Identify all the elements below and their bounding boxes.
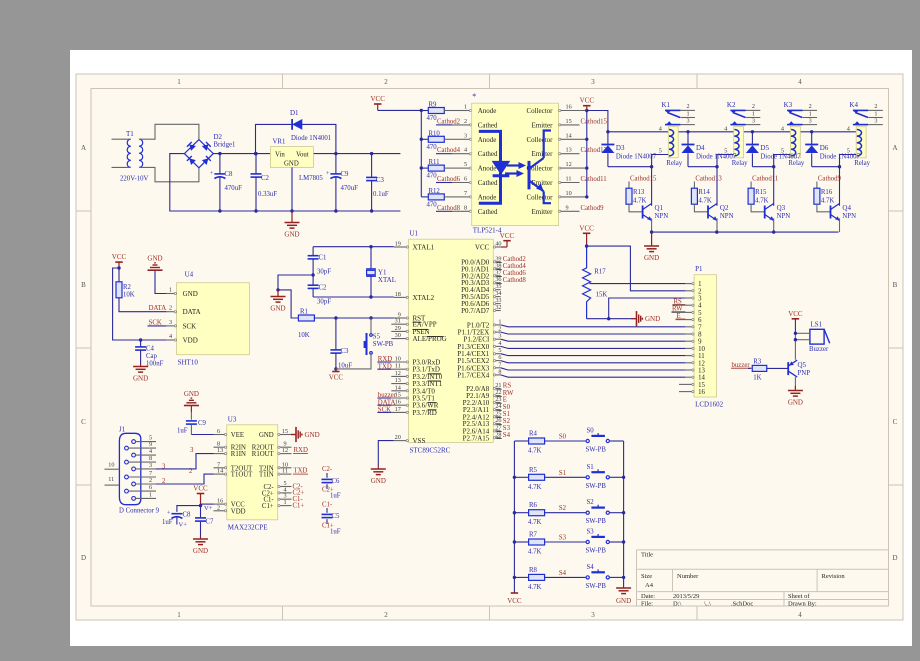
bridge rectifier D2: [184, 133, 235, 168]
transistor Q4 NPN: [831, 167, 857, 232]
svg-text:SW-PB: SW-PB: [373, 341, 394, 348]
U1 pin 30 ALE/PROG: [391, 332, 446, 343]
wire crystal node B: [313, 295, 394, 298]
U3 pin 14 T1OUT: [214, 468, 254, 479]
svg-text:30pF: 30pF: [317, 269, 331, 276]
resistor R6 4.7K: [514, 502, 585, 526]
svg-text:R17: R17: [594, 269, 606, 276]
svg-text:K1: K1: [662, 101, 671, 109]
svg-text:S1: S1: [587, 464, 594, 471]
svg-text:GND: GND: [193, 547, 208, 555]
svg-text:S4: S4: [503, 432, 511, 439]
svg-text:GND: GND: [645, 315, 660, 323]
net label C1-: [293, 496, 304, 503]
net label SCK: [148, 319, 167, 326]
svg-text:470: 470: [427, 201, 438, 208]
U1 pin 40 VCC: [475, 232, 515, 252]
resistor R4 4.7K: [514, 431, 585, 455]
svg-text:Q2: Q2: [720, 204, 729, 212]
svg-text:2: 2: [189, 468, 193, 475]
U1 pin 18 XTAL2: [394, 291, 435, 302]
wire U1 VSS to ground: [378, 441, 394, 465]
svg-text:C9: C9: [341, 171, 350, 178]
svg-text:4: 4: [698, 303, 702, 310]
capacitor C7 1uF: [195, 506, 214, 537]
svg-text:2: 2: [752, 103, 755, 110]
svg-text:File:: File:: [641, 600, 653, 607]
svg-text:VCC: VCC: [507, 597, 522, 605]
svg-text:buzzer: buzzer: [732, 362, 751, 369]
svg-text:7: 7: [498, 361, 501, 368]
svg-text:2013/5/29: 2013/5/29: [673, 593, 699, 600]
opto pin 10: [559, 190, 587, 198]
U3 pin 4 C2+: [262, 486, 292, 497]
switch S4 SW-PB: [586, 564, 624, 590]
svg-text:8: 8: [149, 455, 152, 462]
svg-text:Diode 1N4007: Diode 1N4007: [696, 154, 737, 161]
wire crystal node A: [313, 245, 394, 248]
svg-text:40: 40: [495, 241, 501, 248]
resistor R10 470: [421, 130, 471, 151]
U1 pin 13 P3.3/INT1: [391, 377, 442, 388]
switch S3 SW-PB: [586, 529, 624, 555]
U1 pin 19 XTAL1: [394, 241, 435, 252]
svg-text:\..\: \..\: [704, 600, 711, 607]
svg-text:1: 1: [874, 111, 877, 118]
wire LM7805 gnd: [290, 167, 293, 212]
ground switches: [616, 588, 631, 605]
svg-text:Diode 1N4007: Diode 1N4007: [616, 154, 657, 161]
opto pin 11: [559, 176, 607, 184]
wire VCC to resistor rail: [378, 109, 423, 197]
wire R17 tap to LCD pin1: [590, 283, 686, 285]
power port VCC lcd: [579, 224, 594, 248]
svg-text:NPN: NPN: [842, 213, 856, 220]
svg-text:1: 1: [283, 499, 286, 506]
svg-text:R5: R5: [529, 467, 538, 474]
svg-text:16: 16: [698, 389, 705, 396]
svg-text:XTAL1: XTAL1: [413, 244, 435, 252]
net label TXD max232: [293, 468, 308, 475]
svg-text:6: 6: [698, 317, 702, 324]
svg-text:5: 5: [698, 310, 702, 317]
svg-text:Q3: Q3: [777, 204, 786, 212]
svg-text:PNP: PNP: [798, 370, 811, 377]
svg-text:Anode: Anode: [478, 193, 497, 201]
svg-text:Cathed: Cathed: [478, 121, 498, 129]
svg-text:3: 3: [169, 319, 172, 326]
svg-text:C1: C1: [319, 255, 327, 262]
svg-text:C3: C3: [376, 177, 385, 184]
U3 pin 16 VCC: [214, 498, 246, 509]
svg-text:220V-10V: 220V-10V: [120, 176, 149, 183]
svg-text:RS: RS: [503, 383, 512, 390]
svg-text:Buzzer: Buzzer: [809, 346, 829, 353]
svg-text:STC89C52RC: STC89C52RC: [410, 446, 451, 454]
svg-text:19: 19: [395, 241, 401, 248]
svg-text:VCC: VCC: [112, 253, 127, 261]
wire VCC feed to relay rail: [587, 111, 608, 132]
svg-text:J1: J1: [119, 426, 126, 434]
sheet inner border: [91, 89, 889, 607]
resistor R16 4.7K: [814, 175, 842, 211]
ground crystal: [270, 290, 285, 313]
svg-text:C8: C8: [183, 512, 192, 519]
U1 pin 2 P1.1/T2EX: [458, 326, 686, 337]
svg-text:D Connector 9: D Connector 9: [119, 508, 160, 515]
svg-text:VCC: VCC: [500, 232, 515, 240]
svg-text:20: 20: [395, 434, 401, 441]
svg-text:16: 16: [395, 399, 401, 406]
U4 pin 2 DATA: [166, 305, 200, 317]
net label C1+: [293, 502, 305, 509]
svg-text:2: 2: [149, 477, 152, 484]
capacitor C9 1uF max232: [177, 390, 214, 435]
U1 pin 11 P3.1/TxD: [377, 363, 440, 374]
svg-text:1: 1: [464, 104, 467, 111]
svg-text:R3: R3: [753, 359, 762, 366]
svg-text:VDD: VDD: [183, 337, 198, 345]
svg-text:1K: 1K: [753, 375, 761, 382]
net label Cathod8 / opto pin 8: [436, 204, 472, 212]
svg-text:R10: R10: [429, 130, 441, 137]
U1 pin 16 P3.6/WR: [377, 399, 438, 410]
U1 pin 34 P0.5/AD5: [461, 290, 501, 301]
ground U3 pin15: [291, 427, 320, 442]
svg-text:C9: C9: [198, 420, 207, 427]
svg-text:R1OUT: R1OUT: [252, 451, 275, 458]
wire VCC to VDD: [113, 268, 167, 342]
svg-text:C: C: [81, 418, 86, 426]
svg-text:VCC: VCC: [475, 244, 490, 252]
svg-text:V+: V+: [179, 522, 188, 529]
net label RS lcd: [673, 298, 686, 305]
svg-text:S0: S0: [587, 428, 595, 435]
U1 pin 26 P2.5/A13: [463, 417, 511, 428]
wire relay K1 pin5 to collector node: [650, 155, 668, 169]
diode D4 1N4007: [682, 130, 737, 167]
U3 pin 1 C1+: [262, 499, 292, 510]
svg-text:Diode 1N4001: Diode 1N4001: [291, 135, 331, 142]
svg-text:C8: C8: [225, 171, 234, 178]
wire J1 pin2 to T1OUT: [156, 468, 214, 484]
net label buzzer: [731, 362, 753, 369]
svg-text:1uF: 1uF: [330, 529, 341, 536]
sheet column dividers: [282, 74, 284, 89]
svg-text:Q4: Q4: [842, 204, 851, 212]
svg-text:SW-PB: SW-PB: [586, 447, 607, 454]
svg-text:Cathod11: Cathod11: [581, 176, 607, 183]
opto internal LED and transistor symbol: [479, 131, 551, 204]
svg-text:RXD: RXD: [294, 447, 308, 454]
svg-text:XTAL2: XTAL2: [413, 294, 435, 302]
U1 pin 31 EA/VPP: [391, 318, 436, 329]
svg-text:A4: A4: [645, 582, 654, 589]
svg-text:V+: V+: [204, 505, 213, 512]
U1 pin 23 P2.2/A10: [463, 396, 507, 407]
U1 pin 5 P1.4/CEX1: [457, 347, 685, 358]
svg-text:4.7K: 4.7K: [821, 198, 834, 205]
svg-text:4: 4: [798, 611, 802, 619]
svg-text:Cathod2: Cathod2: [437, 118, 461, 125]
svg-text:5: 5: [464, 161, 467, 168]
svg-text:D6: D6: [820, 144, 829, 152]
resistor R2 10K: [116, 268, 166, 312]
microcontroller U1 STC89C52RC body: [409, 230, 494, 455]
svg-text:C: C: [893, 418, 898, 426]
svg-text:D4: D4: [696, 144, 705, 152]
svg-text:VCC: VCC: [193, 485, 208, 493]
svg-text:R12: R12: [429, 188, 441, 195]
wire switch GND rail: [622, 441, 625, 588]
capacitor C5 1uF: [322, 502, 341, 536]
svg-text:+: +: [167, 510, 171, 517]
wire bridge left to bottom rail: [170, 154, 220, 211]
svg-text:4: 4: [724, 126, 727, 133]
net label Cathod6 / opto pin 6: [436, 176, 472, 184]
net label DATA: [149, 305, 167, 312]
svg-text:Collector: Collector: [526, 107, 553, 115]
svg-text:GND: GND: [184, 390, 199, 398]
wire relay VCC rail: [608, 131, 866, 133]
svg-text:470uF: 470uF: [341, 185, 359, 192]
svg-text:GND: GND: [259, 432, 274, 439]
svg-text:GND: GND: [133, 375, 148, 383]
svg-text:0.33uF: 0.33uF: [258, 191, 277, 198]
title block: [637, 550, 889, 607]
svg-text:P0.7/AD7: P0.7/AD7: [461, 307, 490, 315]
transistor Q5 PNP: [788, 360, 810, 377]
U4 pin 1 GND: [166, 287, 197, 299]
capacitor C3 0.1uF: [366, 152, 389, 213]
svg-text:Cathed: Cathed: [478, 150, 498, 158]
svg-text:C1+: C1+: [293, 502, 305, 509]
wire relay K4 pin5 to collector node: [838, 155, 856, 169]
wire relay K3 pin5 to collector node: [772, 155, 790, 169]
svg-text:S0: S0: [503, 404, 511, 411]
svg-text:9: 9: [149, 441, 152, 448]
resistor R8 4.7K: [514, 567, 585, 591]
svg-text:26: 26: [495, 417, 501, 424]
svg-text:Relay: Relay: [666, 160, 682, 167]
svg-text:R8: R8: [529, 567, 538, 574]
wire crystal caps to ground: [276, 275, 313, 318]
U1 pin 6 P1.5/CEX2: [457, 354, 685, 365]
U3 pin 15 GND: [259, 428, 292, 439]
svg-text:1: 1: [687, 111, 690, 118]
U3 pin 11 T1IN: [259, 468, 292, 479]
ground buzzer: [788, 386, 803, 407]
svg-text:XTAL: XTAL: [378, 276, 396, 284]
svg-text:VEE: VEE: [231, 432, 244, 439]
svg-text:24: 24: [495, 403, 501, 410]
svg-text:15: 15: [698, 382, 705, 389]
U1 pin 27 P2.6/A14: [463, 424, 511, 435]
svg-text:4.7K: 4.7K: [528, 484, 541, 491]
svg-text:D:\: D:\: [673, 600, 682, 607]
svg-text:VCC: VCC: [788, 310, 803, 318]
svg-text:T1IN: T1IN: [259, 472, 274, 479]
sheet row dividers: [76, 210, 91, 212]
svg-text:16: 16: [566, 104, 572, 111]
svg-text:Emitter: Emitter: [532, 150, 554, 158]
opto pin 9: [559, 204, 605, 212]
svg-text:1: 1: [752, 111, 755, 118]
svg-text:Cathod15: Cathod15: [630, 175, 657, 182]
svg-text:4: 4: [149, 448, 152, 455]
svg-text:MAX232CPE: MAX232CPE: [228, 523, 268, 531]
transistor Q1 NPN: [643, 167, 669, 232]
svg-text:C2-: C2-: [322, 466, 333, 473]
svg-text:14: 14: [217, 468, 223, 475]
svg-text:GND: GND: [644, 254, 659, 262]
svg-text:1uF: 1uF: [177, 428, 188, 435]
capacitor C9 470uF: [326, 154, 358, 213]
U1 pin 1 P1.0/T2: [467, 318, 685, 329]
svg-text:C1-: C1-: [322, 502, 333, 509]
U1 pin 10 P3.0/RxD: [377, 356, 440, 367]
svg-text:Emitter: Emitter: [532, 121, 554, 129]
svg-text:6: 6: [149, 484, 152, 491]
svg-text:3: 3: [591, 611, 595, 619]
svg-text:11: 11: [395, 363, 401, 370]
U1 pin 25 P2.4/A12: [463, 410, 510, 421]
svg-text:470: 470: [427, 144, 438, 151]
net label S0 wire: [559, 434, 567, 441]
svg-text:11: 11: [566, 176, 572, 183]
svg-text:R1: R1: [300, 309, 308, 316]
svg-text:LS1: LS1: [811, 320, 823, 328]
svg-text:12: 12: [566, 161, 572, 168]
wire J1 pin3 to R1IN: [156, 447, 214, 469]
svg-text:3: 3: [752, 118, 755, 125]
svg-text:GND: GND: [284, 160, 299, 167]
svg-text:15: 15: [566, 118, 572, 125]
svg-text:12: 12: [698, 360, 705, 367]
svg-text:1: 1: [177, 611, 181, 619]
svg-text:C1+: C1+: [262, 503, 274, 510]
capacitor C1 30pF: [308, 247, 332, 276]
svg-text:B: B: [81, 281, 86, 289]
svg-text:R9: R9: [429, 102, 438, 109]
svg-text:S3: S3: [559, 535, 567, 542]
svg-text:C2: C2: [261, 175, 270, 182]
svg-text:SHT10: SHT10: [178, 359, 199, 367]
wire relay emitter gnd rail: [650, 230, 839, 233]
wire RST line: [314, 316, 400, 319]
net label S1 wire: [559, 470, 566, 477]
svg-text:LCD1602: LCD1602: [695, 401, 724, 409]
svg-text:4.7K: 4.7K: [528, 584, 541, 591]
lcd P1 pins: [679, 265, 724, 408]
svg-text:S2: S2: [503, 418, 511, 425]
ic U3 MAX232CPE body: [227, 415, 278, 531]
svg-text:Cathod8: Cathod8: [437, 205, 461, 212]
svg-text:3: 3: [190, 447, 194, 454]
ground lcd side: [632, 311, 661, 326]
svg-text:R14: R14: [698, 189, 710, 196]
svg-text:14: 14: [395, 384, 401, 391]
svg-text:Cathod8: Cathod8: [503, 277, 527, 284]
transistor Q2 NPN: [708, 167, 734, 232]
svg-text:11: 11: [282, 468, 288, 475]
svg-text:VSS: VSS: [413, 437, 426, 445]
switch S0 SW-PB: [586, 428, 624, 454]
relay K2 coil: [724, 126, 748, 167]
ground C7: [193, 537, 208, 556]
wire buzzer terminals: [794, 332, 810, 360]
U3 pin 2 VDD: [214, 504, 246, 515]
svg-text:4.7K: 4.7K: [528, 448, 541, 455]
svg-text:Anode: Anode: [478, 107, 497, 115]
svg-text:23: 23: [495, 396, 501, 403]
resistor R17 15K zigzag: [583, 246, 608, 319]
U1 pin 12 P3.2/INT0: [391, 370, 442, 381]
svg-text:Cathed: Cathed: [478, 179, 498, 187]
optocoupler U TLP521-4 body: [472, 92, 559, 235]
svg-text:2: 2: [464, 118, 467, 125]
U1 pin 33 P0.6/AD6: [461, 297, 501, 308]
resistor R9 470: [421, 102, 471, 123]
net label C2+: [293, 490, 305, 497]
diode D3 1N4007: [601, 130, 656, 167]
svg-text:D1: D1: [290, 109, 299, 117]
buzzer LS1: [809, 320, 830, 353]
svg-text:2: 2: [698, 288, 702, 295]
U4 pin 3 SCK: [166, 319, 196, 331]
svg-text:10K: 10K: [298, 332, 310, 339]
U1 pin 37 P0.2/AD2: [461, 269, 526, 280]
svg-text:Cathod4: Cathod4: [503, 263, 527, 270]
capacitor C3 10uF: [330, 318, 352, 371]
wire R17 bottom to gnd: [587, 317, 632, 320]
svg-text:28: 28: [495, 431, 501, 438]
relay K1 coil: [659, 126, 683, 167]
svg-text:29: 29: [395, 325, 401, 332]
net label S4 wire: [559, 570, 567, 577]
svg-text:9: 9: [566, 204, 569, 211]
svg-text:Cathod15: Cathod15: [581, 118, 608, 125]
svg-text:P2.7/A15: P2.7/A15: [463, 434, 490, 442]
svg-text:10K: 10K: [123, 292, 135, 299]
svg-text:1: 1: [177, 78, 181, 86]
svg-text:3: 3: [809, 118, 812, 125]
U4 pin 4 VDD: [166, 333, 197, 345]
svg-text:Relay: Relay: [732, 160, 748, 167]
U3 pin 13 R1IN: [214, 447, 246, 458]
svg-text:R15: R15: [755, 189, 767, 196]
svg-text:SCK: SCK: [183, 322, 197, 330]
svg-text:DATA: DATA: [149, 305, 167, 312]
U1 pin 15 P3.5/T1: [377, 392, 435, 403]
svg-text:Emitter: Emitter: [532, 208, 554, 216]
svg-text:8: 8: [498, 368, 501, 375]
svg-text:S2: S2: [587, 499, 595, 506]
svg-text:A: A: [81, 144, 86, 152]
svg-text:GND: GND: [305, 431, 320, 439]
svg-text:SW-PB: SW-PB: [586, 518, 607, 525]
U3 pin 5 C2-: [263, 480, 291, 491]
svg-text:LM7805: LM7805: [299, 175, 323, 182]
net label RW lcd: [672, 306, 686, 313]
svg-text:Cathed: Cathed: [478, 208, 498, 216]
U1 pin 32 P0.7/AD7: [461, 304, 501, 315]
svg-text:4.7K: 4.7K: [528, 549, 541, 556]
resistor R1 10K: [298, 309, 314, 340]
U1 pin 17 P3.7/RD: [377, 406, 436, 417]
sensor U4 SHT10 body: [177, 271, 250, 367]
svg-text:A: A: [892, 144, 897, 152]
